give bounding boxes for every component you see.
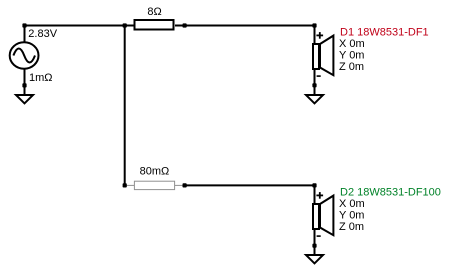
wire [24, 26, 26, 43]
wire [175, 25, 315, 27]
label 2.83V [28, 28, 57, 40]
resistor R2 80mΩ [134, 181, 174, 189]
junction dot [22, 83, 26, 87]
label 1mΩ [29, 72, 53, 84]
label Y [339, 50, 364, 62]
svg-text:80mΩ: 80mΩ [140, 165, 170, 177]
junction dot [312, 183, 316, 187]
svg-text:X 0m: X 0m [339, 198, 365, 210]
plus sign [316, 32, 323, 39]
AC source V1 [10, 42, 39, 68]
wire [24, 70, 26, 96]
resistor R1 8Ω [135, 20, 174, 30]
wire [125, 184, 134, 186]
wire [314, 185, 316, 204]
plus sign [316, 192, 323, 199]
speaker D1 [313, 36, 333, 76]
ground [16, 95, 33, 103]
svg-text:8Ω: 8Ω [147, 6, 161, 18]
svg-text:D1 18W8531-DF1: D1 18W8531-DF1 [340, 27, 429, 39]
wire [124, 26, 126, 186]
svg-text:Z 0m: Z 0m [339, 221, 364, 233]
wire [314, 26, 316, 45]
label Z [339, 221, 364, 233]
svg-text:D2 18W8531-DF100: D2 18W8531-DF100 [340, 187, 441, 199]
junction dot [312, 23, 316, 27]
speaker D2 [313, 196, 333, 236]
wire [314, 70, 316, 96]
junction dot [22, 23, 26, 27]
wire [185, 184, 315, 186]
ground [306, 255, 323, 263]
label Y [339, 210, 364, 222]
junction dot [123, 183, 127, 187]
label 8Ω [147, 6, 161, 18]
junction dot [123, 23, 127, 27]
svg-text:Z 0m: Z 0m [339, 61, 364, 73]
label X [339, 198, 365, 210]
label 80mΩ [140, 165, 170, 177]
minus sign [317, 235, 321, 237]
svg-text:Y 0m: Y 0m [339, 50, 364, 62]
label Z [339, 61, 364, 73]
junction dot [312, 83, 316, 87]
svg-text:X 0m: X 0m [339, 38, 365, 50]
label X [339, 38, 365, 50]
svg-text:2.83V: 2.83V [28, 28, 57, 40]
wire [25, 25, 134, 27]
junction dot [312, 244, 316, 248]
wire [314, 230, 316, 256]
junction dot [183, 183, 187, 187]
svg-text:1mΩ: 1mΩ [29, 72, 53, 84]
label D2 [340, 187, 441, 199]
wire [175, 184, 185, 186]
minus sign [317, 75, 321, 77]
junction dot [183, 23, 187, 27]
label D1 [340, 27, 429, 39]
ground [306, 95, 323, 103]
svg-text:Y 0m: Y 0m [339, 210, 364, 222]
